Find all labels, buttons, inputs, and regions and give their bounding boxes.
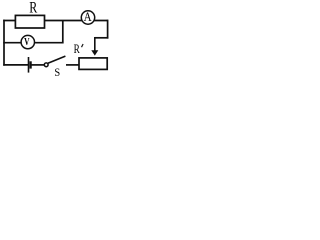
wire: voltmeter branch vertical riser (node on top wire) bbox=[62, 20, 64, 44]
svg-text:R: R bbox=[74, 42, 81, 56]
battery cell: short thick plate (negative) bbox=[29, 61, 31, 68]
svg-text:V: V bbox=[24, 37, 30, 48]
wire: left side vertical bbox=[3, 20, 5, 66]
wire: horizontal segment to rheostat slider bbox=[95, 37, 109, 39]
resistor R (box) bbox=[15, 15, 44, 28]
svg-text:S: S bbox=[54, 65, 60, 77]
switch S: lever arm bbox=[48, 56, 66, 63]
label R' : prime mark bbox=[82, 44, 84, 47]
wire: bottom side left segment (corner to battery) bbox=[3, 64, 28, 66]
wire: bottom segment switch to rheostat bbox=[66, 64, 80, 66]
rheostat slider arrow shaft bbox=[94, 37, 96, 51]
ammeter A (circle) bbox=[81, 11, 94, 24]
wire: right side vertical (top corner down to turn) bbox=[107, 20, 109, 39]
wire: bottom segment battery to switch bbox=[31, 64, 44, 66]
rheostat slider arrow head bbox=[91, 50, 98, 55]
background bbox=[0, 0, 110, 77]
battery cell: long plate (positive) bbox=[28, 57, 30, 73]
svg-text:A: A bbox=[84, 10, 93, 24]
switch S: pivot circle bbox=[44, 63, 48, 67]
voltmeter V (circle) bbox=[21, 35, 34, 48]
wire: top side (left corner to right corner) bbox=[3, 20, 107, 22]
wire: voltmeter branch horizontal bbox=[3, 42, 63, 44]
svg-text:R: R bbox=[29, 0, 37, 17]
rheostat R' (box) bbox=[79, 58, 107, 70]
